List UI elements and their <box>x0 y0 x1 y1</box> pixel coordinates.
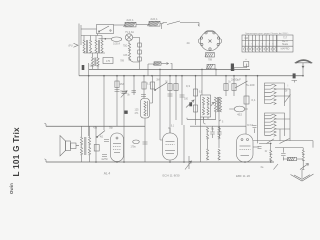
junction <box>116 161 118 163</box>
wire drop x182 <box>181 76 183 125</box>
wafer bank 1 outline <box>265 83 285 106</box>
wire net to bus C <box>271 161 274 163</box>
transformer T1 primary left <box>83 40 85 53</box>
wire drop x89 <box>88 63 90 76</box>
valve table grid <box>242 35 293 52</box>
junction <box>159 69 161 71</box>
socket pins <box>200 32 219 51</box>
wire speaker top leads <box>76 126 90 145</box>
antenna arrowhead <box>302 66 305 69</box>
junction choke top <box>270 143 272 145</box>
wire bus A (HT rail) <box>89 68 250 70</box>
wire cap C8 drop <box>254 129 256 134</box>
tube V2 envelope <box>163 133 178 160</box>
svg-text:788: 788 <box>208 59 213 62</box>
transformer T3 core <box>95 58 96 67</box>
wire osc lower leads <box>208 139 220 149</box>
svg-text:Owin: Owin <box>9 183 14 194</box>
wire tube V1 bottom <box>116 161 118 164</box>
switch S5 near V1 <box>97 131 105 138</box>
trimmer oval <box>133 140 140 144</box>
capacitor C12 <box>102 155 107 157</box>
svg-text:452: 452 <box>237 113 242 117</box>
capacitor C4 <box>180 95 185 97</box>
output transformer primary <box>80 137 82 155</box>
svg-text:2x0,1: 2x0,1 <box>150 17 158 21</box>
resistor R11 <box>287 157 296 160</box>
osc coil bottom a <box>206 149 208 160</box>
wire right vertical x290 <box>289 89 291 141</box>
wire drop x134 <box>132 76 137 95</box>
svg-text:9μ: 9μ <box>211 127 215 131</box>
transformer T3 winding a <box>91 58 93 67</box>
resistor R7 <box>224 84 228 91</box>
junction oval feed <box>105 38 107 40</box>
table row2 digits <box>245 44 278 46</box>
junction bus B x226 <box>225 75 227 77</box>
junction <box>233 75 235 77</box>
resistor Rd2 <box>138 50 142 54</box>
wire x96 vertical <box>95 126 97 162</box>
osc trimmer cap <box>189 102 192 106</box>
osc coil winding b <box>207 97 209 115</box>
wafer bank 2 outline <box>265 113 285 136</box>
tube V3 envelope <box>237 134 254 162</box>
osc coil lower b <box>218 127 220 139</box>
junction <box>257 75 259 77</box>
wire mains lead left <box>78 24 80 76</box>
wire speaker rail left hook <box>45 123 47 126</box>
svg-text:2M: 2M <box>156 80 159 82</box>
wire choke L2 leads <box>259 143 271 162</box>
wire dial motor feed <box>148 64 154 76</box>
resistor R4 <box>174 84 178 91</box>
junction <box>270 161 272 163</box>
switch S4 <box>235 81 248 88</box>
wire drop x226 <box>225 76 227 96</box>
capacitor C3 <box>168 94 173 96</box>
wire drop x234 <box>233 76 235 96</box>
svg-text:9 h4: 9 h4 <box>247 123 253 127</box>
capacitor C10 <box>217 132 222 134</box>
wire drop x117 <box>116 76 118 127</box>
tube socket circle <box>200 31 219 50</box>
wire IF leads down <box>144 118 146 162</box>
svg-text:ECH 11·8/30: ECH 11·8/30 <box>162 174 179 178</box>
fuse F2 <box>147 21 160 26</box>
wire raised segment <box>234 64 247 71</box>
svg-text:75Ω: 75Ω <box>123 45 128 48</box>
socket side notches <box>198 39 221 44</box>
wire osc bottom link <box>187 112 216 119</box>
choke on bus A <box>206 64 215 69</box>
wire trimmer link <box>229 108 248 110</box>
capacitor C9 <box>210 132 215 134</box>
junction <box>175 75 177 77</box>
pilot lamp LP1 <box>125 34 132 41</box>
wire mains lead 2 <box>80 25 82 45</box>
transformer T2 core <box>99 40 100 53</box>
wire switch to box1 <box>114 24 126 26</box>
wire right net mid <box>275 147 303 149</box>
resistor R9 <box>244 96 249 104</box>
connector blob <box>293 73 296 78</box>
wire tube V3 bottom <box>241 161 245 163</box>
resistor R5 <box>193 89 197 96</box>
wire to wave switch <box>160 23 167 24</box>
wire drop x144 <box>143 76 145 99</box>
svg-text:50∿: 50∿ <box>90 65 95 68</box>
choke L3 <box>302 150 304 161</box>
wire x189 drop <box>188 156 190 169</box>
variable arrow near V2 <box>185 161 192 170</box>
padder winding b <box>219 97 221 112</box>
junction <box>169 161 171 163</box>
wire oval feed <box>99 38 112 40</box>
junction bus A x202 <box>201 69 203 71</box>
socket notch <box>206 29 214 32</box>
resistor Rd1 <box>138 43 142 47</box>
svg-text:4Ω: 4Ω <box>186 42 189 45</box>
wire lamp leads <box>129 37 140 43</box>
capacitor C1 <box>115 90 120 92</box>
switch on x290 <box>285 95 291 103</box>
osc coil box <box>201 95 211 117</box>
output transformer secondary <box>88 137 90 155</box>
tube V1 electrodes <box>113 137 121 153</box>
wire osc top lead <box>219 97 221 127</box>
capacitor C13 <box>258 147 262 149</box>
junction <box>151 75 153 77</box>
wire coil L1 bottom <box>130 60 140 62</box>
svg-text:AL 4: AL 4 <box>104 172 111 176</box>
svg-text:Skala: Skala <box>282 43 289 46</box>
wire drop x195 <box>195 76 197 125</box>
svg-text:Spannungen gem. gegen Chassis: Spannungen gem. gegen Chassis bei 220V~ <box>245 33 289 35</box>
switch S1 mains box <box>97 25 114 34</box>
wire switch feed <box>81 28 97 30</box>
svg-text:Dr: Dr <box>265 150 268 153</box>
capacitor C2 <box>122 91 127 93</box>
variable arrow right <box>300 164 309 170</box>
capacitor C5 <box>143 142 148 144</box>
wire antenna stem <box>302 63 304 76</box>
tube V3 electrodes <box>240 139 251 156</box>
wafer switch bank 1 <box>265 84 277 105</box>
speaker <box>60 136 76 157</box>
switch S2 wavechange <box>167 21 199 26</box>
wire drop x152 <box>150 76 153 103</box>
junction <box>116 75 118 77</box>
capacitor C7 plus box <box>244 62 249 67</box>
wire drop x170 <box>169 76 171 133</box>
wire tube V3 side <box>253 146 259 148</box>
wire right net link <box>312 141 314 148</box>
wire bank2 drop x280 <box>279 129 281 141</box>
junction <box>95 161 97 163</box>
wire osc box lead down <box>200 117 202 162</box>
pickup arrow <box>74 43 79 47</box>
tube V2 electrodes <box>165 142 175 154</box>
wire choke L3 leads <box>302 148 304 164</box>
capacitor C5b dark <box>124 111 127 114</box>
dial motor box <box>153 62 161 65</box>
resistor R10 <box>94 145 99 152</box>
table cell symbols <box>244 47 277 50</box>
dial arrow head <box>167 63 169 65</box>
wire T1 top leads <box>81 34 102 40</box>
wire ground stem <box>301 170 303 179</box>
wire osc coil down a <box>204 117 206 124</box>
capacitor C11 <box>104 140 109 142</box>
junction bus A x216 <box>215 69 217 71</box>
wire drop x246 <box>245 76 247 134</box>
wire bus B (heater rail) <box>79 75 303 77</box>
wire mid rail right <box>190 125 246 127</box>
wire T1 bottom leads <box>84 53 105 58</box>
switch S8 diag <box>274 164 279 170</box>
blob mains junction <box>82 65 85 70</box>
svg-text:179a: 179a <box>130 147 136 149</box>
junction <box>181 75 183 77</box>
svg-text:9μ: 9μ <box>218 127 222 131</box>
dial scale oval <box>111 37 121 41</box>
junction <box>245 75 247 77</box>
junction <box>123 161 125 163</box>
svg-text:L 101 G Trix: L 101 G Trix <box>12 127 21 176</box>
transformer T2 secondary right <box>101 40 103 53</box>
svg-text:(PU: (PU <box>68 45 72 48</box>
osc coil winding a <box>202 97 204 115</box>
junction <box>143 75 145 77</box>
wire tube V2 top cap <box>168 128 170 133</box>
antenna <box>295 59 313 63</box>
resistor R8 <box>232 84 236 91</box>
resistor R6 <box>193 105 197 112</box>
svg-text:MAPRD: MAPRD <box>281 48 290 51</box>
switch S3 <box>155 83 167 91</box>
ground chevron <box>291 174 314 181</box>
svg-text:175: 175 <box>106 60 111 63</box>
padder winding a <box>214 97 216 112</box>
svg-text:1M: 1M <box>119 82 124 86</box>
wire drop x176 <box>175 76 177 120</box>
osc coil lower a <box>206 127 208 139</box>
svg-text:166: 166 <box>123 54 128 57</box>
capacitor C15 <box>141 95 146 97</box>
junction <box>103 75 105 77</box>
transformer T1 core <box>87 40 88 53</box>
fuse F1 <box>124 22 137 27</box>
transformer T2 secondary left <box>95 40 97 53</box>
junction <box>244 161 246 163</box>
junction <box>195 75 197 77</box>
wire drop x104 <box>103 76 105 130</box>
wire right net top <box>253 140 313 142</box>
svg-text:0,3: 0,3 <box>186 84 191 88</box>
wire speaker bottom leads <box>82 155 90 162</box>
svg-text:0,35 A: 0,35 A <box>113 43 120 46</box>
transformer T3 winding b <box>97 58 99 67</box>
svg-text:0,1: 0,1 <box>251 98 256 102</box>
svg-text:5+10F: 5+10F <box>246 83 255 87</box>
svg-text:4Ω: 4Ω <box>100 135 103 139</box>
svg-text:2x0,1: 2x0,1 <box>126 18 134 22</box>
wire x184 drop <box>183 125 185 162</box>
svg-text:Ba V: Ba V <box>282 39 288 43</box>
wire R11 leads <box>283 158 302 160</box>
svg-text:4a750: 4a750 <box>101 159 108 161</box>
resistor R2 <box>142 82 146 89</box>
connector tick <box>292 81 298 83</box>
svg-text:2x50μF: 2x50μF <box>231 78 241 82</box>
wire bank outputs right <box>276 89 290 129</box>
wire C10 stubs <box>219 126 221 138</box>
wire stub x161 <box>161 24 163 29</box>
wire cap C14 leads <box>282 148 284 161</box>
resistor Rd3 <box>138 57 142 61</box>
junction antenna bus <box>302 75 304 77</box>
wire drop x124 <box>123 76 125 162</box>
choke L2 <box>270 150 272 161</box>
wire dropper chain <box>139 37 141 69</box>
padder core <box>217 97 220 112</box>
wire bus C left hook <box>45 159 47 162</box>
wire drop x257 <box>257 76 259 144</box>
osc trimmer arrow2 <box>186 100 194 108</box>
wire to ground <box>302 164 304 170</box>
wire bus C (chassis rail) <box>46 161 274 163</box>
wire dial arrow <box>161 63 168 65</box>
resistor R12 <box>150 82 154 89</box>
osc trimmer arrow <box>211 103 214 107</box>
svg-text:GR: GR <box>245 37 249 40</box>
wire C9 stubs <box>212 126 214 138</box>
svg-text:7V 0,3A: 7V 0,3A <box>125 31 134 34</box>
box 175 <box>103 58 113 64</box>
tube V1 envelope <box>111 133 124 162</box>
IF transformer can <box>141 99 150 119</box>
resistor R3 <box>168 84 172 91</box>
wire tube V2 bottom <box>169 160 171 162</box>
capacitor C8 <box>253 126 257 128</box>
wire T3 leads <box>93 66 99 70</box>
transformer T1 primary right <box>89 40 91 53</box>
svg-text:EBF 11·20: EBF 11·20 <box>236 174 250 178</box>
osc coil bottom b <box>218 149 220 160</box>
trimmer arrow C2 <box>121 91 127 98</box>
junction <box>123 75 125 77</box>
trimmer oval 452 <box>234 106 245 112</box>
svg-text:+: + <box>245 57 247 61</box>
electrolytic C6 dark <box>231 64 234 72</box>
IF core <box>147 101 149 116</box>
wire drop x160 <box>160 69 163 140</box>
junction <box>88 75 90 77</box>
junction <box>133 75 135 77</box>
IF primary <box>144 101 146 116</box>
junction <box>183 161 185 163</box>
junction <box>169 75 171 77</box>
wire drop x216 <box>215 69 217 75</box>
output transformer core <box>85 137 86 155</box>
svg-text:471: 471 <box>135 112 140 115</box>
wire box1 to box2 <box>136 24 149 26</box>
socket filter box <box>205 53 215 57</box>
capacitor C14 <box>281 154 286 156</box>
switch S6 <box>280 139 290 144</box>
coil L1 dial lamp dropper <box>128 43 130 60</box>
switch S7 <box>267 139 275 144</box>
wire speaker top rail <box>46 125 145 127</box>
wafer switch bank 2 <box>265 114 277 136</box>
resistor R1 <box>115 81 119 88</box>
wire osc feed <box>201 69 203 95</box>
wire dial arrow drop <box>171 64 173 70</box>
wire drop x89b <box>88 76 90 136</box>
